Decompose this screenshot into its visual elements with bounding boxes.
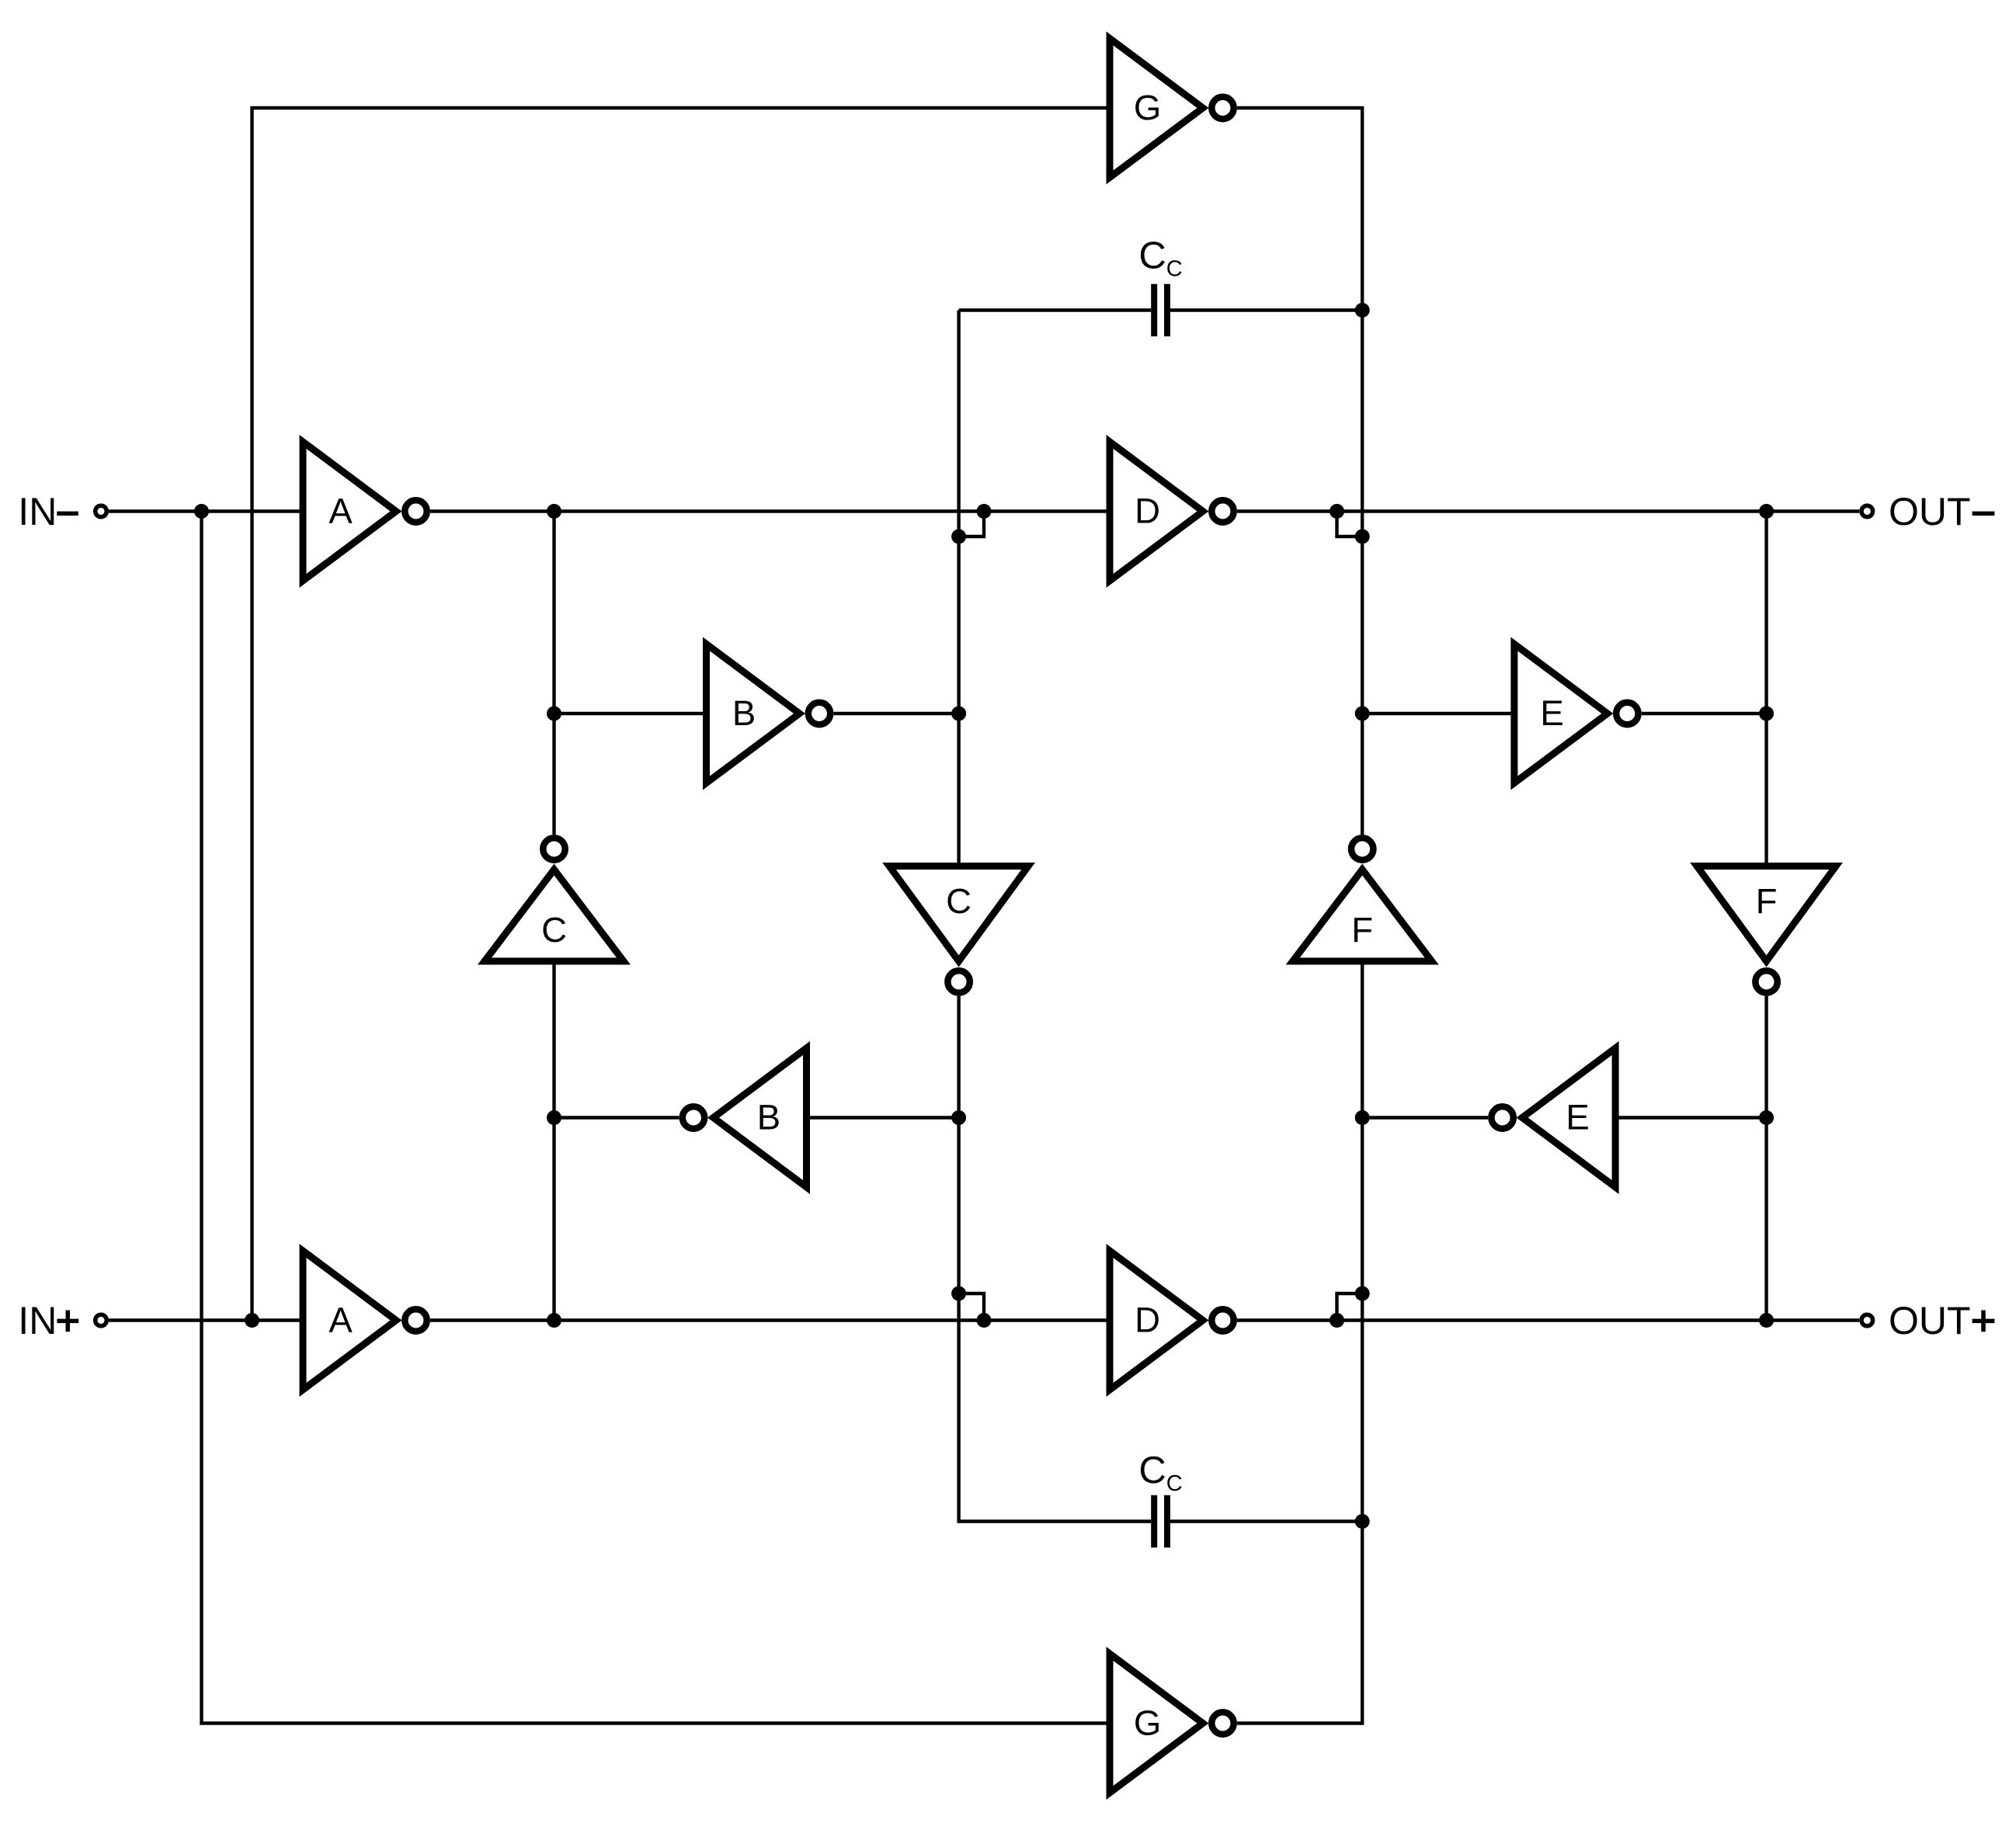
inverter D1 triangle <box>1110 442 1203 581</box>
inverter D2 output bubble <box>1211 1309 1233 1331</box>
junction OUT- jog <box>1330 504 1344 519</box>
junction E bottom out <box>1355 1110 1370 1125</box>
wire E top input <box>1362 712 1514 715</box>
wire net OUT+ column (F in to G out) <box>1237 961 1362 1724</box>
junction jog node b <box>1355 530 1370 544</box>
inverter B2 triangle <box>714 1048 807 1187</box>
svg-text:E: E <box>1566 1097 1589 1137</box>
inverter C2 output bubble <box>947 971 969 992</box>
svg-text:D: D <box>1135 1300 1160 1339</box>
svg-text:G: G <box>1134 1703 1161 1742</box>
svg-text:B: B <box>732 693 756 733</box>
wire node V2 stub from C/B <box>552 961 555 1321</box>
wire OUT+ column right (F out to rail) <box>1764 996 1767 1321</box>
wire IN+ lead <box>109 1318 303 1321</box>
capacitor Cc top right plate <box>1164 284 1170 337</box>
terminal IN- <box>96 505 107 517</box>
junction jog node c <box>951 1287 966 1301</box>
capacitor Cc top left plate <box>1151 284 1157 337</box>
inverter B1 output bubble <box>808 703 830 724</box>
inverter F1 triangle <box>1293 870 1432 961</box>
inverter E2 output bubble <box>1491 1106 1513 1128</box>
wire IN- lead <box>109 509 303 512</box>
terminal OUT+ <box>1861 1314 1873 1326</box>
wire B top output <box>834 712 959 715</box>
inverter F1 output bubble <box>1351 838 1373 859</box>
svg-text:IN: IN <box>18 490 57 533</box>
plus sign of OUT+ <box>1973 1311 1995 1332</box>
junction V2 at L1 <box>547 1313 561 1328</box>
wire B bottom output <box>554 1116 680 1119</box>
junction V2 jog left <box>977 1313 992 1328</box>
junction V1 jog left <box>977 504 992 519</box>
junction Cc bottom node <box>1355 1514 1370 1529</box>
wire V1 column (Cc to C input) <box>957 311 960 866</box>
svg-text:E: E <box>1540 693 1563 733</box>
wire E top output <box>1642 712 1767 715</box>
inverter F2 output bubble <box>1755 971 1777 992</box>
wire jog V1 to C column (top left) <box>959 512 984 537</box>
junction Cc top node <box>1355 303 1370 318</box>
wire OUT- column right (to F input) <box>1764 512 1767 866</box>
inverter A2 output bubble <box>405 1309 426 1331</box>
junction B top out <box>951 707 966 721</box>
svg-text:CC: CC <box>1138 1450 1182 1496</box>
wire jog OUT- to column (top right) <box>1337 512 1363 537</box>
wire Cc top left lead <box>959 308 1152 311</box>
inverter A2 triangle <box>303 1251 396 1390</box>
junction E bottom in <box>1759 1110 1774 1125</box>
junction B bottom in <box>951 1110 966 1125</box>
wire jog C column to V2 (bottom left) <box>959 1293 984 1321</box>
capacitor Cc bottom left plate <box>1151 1495 1157 1548</box>
svg-text:A: A <box>328 1300 353 1339</box>
wire Cc top right lead <box>1170 308 1362 311</box>
inverter E2 triangle <box>1522 1048 1615 1187</box>
svg-text:IN: IN <box>18 1299 57 1342</box>
junction B top in <box>547 707 561 721</box>
junction V1 at L1 <box>547 504 561 519</box>
wire net OUT- column (G out, Cc, to F input) <box>1237 108 1362 835</box>
svg-text:G: G <box>1134 88 1161 127</box>
wire IN+ riser and top rail to G <box>252 108 1111 1321</box>
inverter C2 triangle <box>889 866 1028 962</box>
wire B top input <box>554 712 707 715</box>
junction IN- node <box>194 504 209 519</box>
inverter G2 triangle <box>1110 1654 1203 1793</box>
svg-text:C: C <box>946 881 972 921</box>
inverter G1 triangle <box>1110 39 1203 178</box>
inverter E1 triangle <box>1514 644 1608 783</box>
capacitor Cc bottom right plate <box>1164 1495 1170 1548</box>
inverter G2 output bubble <box>1211 1712 1233 1734</box>
svg-text:OUT: OUT <box>1889 1299 1971 1342</box>
junction jog node d <box>1355 1287 1370 1301</box>
junction OUT+ at L4 <box>1759 1313 1774 1328</box>
wire V2 column (C out to Cc) <box>959 996 1152 1522</box>
inverter G1 output bubble <box>1211 97 1233 119</box>
svg-text:A: A <box>328 491 353 530</box>
inverter C1 output bubble <box>543 838 565 859</box>
svg-text:C: C <box>541 910 567 950</box>
svg-text:CC: CC <box>1138 235 1182 282</box>
wire jog column to OUT+ (bottom right) <box>1337 1293 1363 1321</box>
terminal IN+ <box>96 1314 107 1326</box>
svg-text:B: B <box>757 1097 780 1137</box>
inverter D1 output bubble <box>1211 500 1233 522</box>
wire B bottom input <box>807 1116 959 1119</box>
wire node V1 rail (A to D top) <box>430 509 1110 512</box>
inverter B2 output bubble <box>683 1106 704 1128</box>
junction E top out <box>1759 707 1774 721</box>
svg-text:OUT: OUT <box>1889 490 1971 533</box>
minus sign of IN- <box>57 512 78 516</box>
junction OUT+ jog <box>1330 1313 1344 1328</box>
wire OUT- rail (D to terminal) <box>1237 509 1859 512</box>
junction jog node a <box>951 530 966 544</box>
inverter B1 triangle <box>707 644 800 783</box>
wire node V1 stub to B/C <box>552 512 555 835</box>
wire E bottom output <box>1362 1116 1488 1119</box>
inverter C1 triangle <box>485 870 624 961</box>
svg-text:D: D <box>1135 491 1160 530</box>
wire Cc bottom right lead <box>1170 1519 1362 1523</box>
inverter A1 output bubble <box>405 500 426 522</box>
junction B bottom out <box>547 1110 561 1125</box>
svg-text:F: F <box>1756 881 1778 921</box>
junction IN+ node <box>245 1313 259 1328</box>
terminal OUT- <box>1861 505 1873 517</box>
wire node V2 rail (A to D bottom) <box>430 1318 1110 1321</box>
inverter E1 output bubble <box>1616 703 1638 724</box>
svg-text:F: F <box>1351 910 1373 950</box>
plus sign of IN+ <box>57 1311 78 1332</box>
wire E bottom input <box>1615 1116 1767 1119</box>
wire OUT+ rail (D to terminal) <box>1237 1318 1859 1321</box>
wire IN- riser and bottom rail to G <box>202 512 1111 1724</box>
junction E top in <box>1355 707 1370 721</box>
minus sign of OUT- <box>1973 512 1995 516</box>
inverter D2 triangle <box>1110 1251 1203 1390</box>
inverter A1 triangle <box>303 442 396 581</box>
inverter F2 triangle <box>1697 866 1836 962</box>
junction OUT- at L4 <box>1759 504 1774 519</box>
